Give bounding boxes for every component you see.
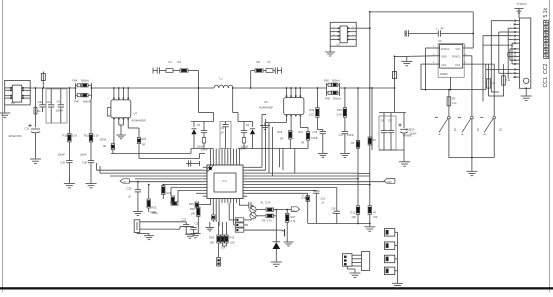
svg-text:4.7k: 4.7k [291,220,296,223]
svg-text:5.1K: 5.1K [309,114,314,117]
svg-text:2: 2 [227,205,228,207]
svg-text:2: 2 [244,181,245,183]
svg-text:R39: R39 [230,236,235,240]
svg-text:10K: 10K [230,241,235,245]
svg-text:VBUS: VBUS [405,130,412,132]
svg-text:R12: R12 [351,211,356,215]
svg-text:FUNC2: FUNC2 [441,48,450,51]
svg-text:R15: R15 [84,134,89,138]
svg-text:C22: C22 [195,222,200,226]
svg-text:CC1: CC1 [442,64,448,67]
svg-text:5.1k: 5.1k [543,8,549,18]
svg-text:0R: 0R [280,138,283,141]
svg-text:10K: 10K [191,212,196,216]
svg-text:C9: C9 [388,119,392,123]
svg-text:560uH: 560uH [332,79,340,83]
svg-text:7: 7 [353,30,354,32]
svg-text:R37: R37 [291,215,296,219]
svg-text:R20A: R20A [100,139,107,142]
svg-text:70K: 70K [373,215,378,219]
svg-text:8: 8 [353,27,354,29]
svg-text:0R: 0R [103,145,106,148]
svg-text:R27: R27 [299,131,304,134]
svg-text:C30: C30 [82,161,87,165]
svg-text:R47: R47 [75,100,80,104]
svg-text:U3: U3 [438,39,442,43]
svg-text:U6: U6 [11,101,15,105]
svg-text:4R: 4R [441,29,444,31]
svg-text:RL 5.7k: RL 5.7k [261,201,271,205]
svg-text:0R: 0R [301,142,304,145]
svg-text:2: 2 [244,193,245,195]
svg-text:FUNC1: FUNC1 [452,56,461,59]
svg-text:100K: 100K [150,210,156,214]
svg-text:6: 6 [510,77,511,79]
svg-text:C29: C29 [60,161,65,165]
svg-text:S2: S2 [453,128,457,132]
svg-text:0R: 0R [142,144,145,147]
svg-text:100nF: 100nF [58,153,66,157]
svg-text:C1: C1 [221,126,225,130]
svg-text:2: 2 [510,24,511,26]
svg-text:R30: R30 [190,207,195,211]
svg-text:R38: R38 [209,236,214,240]
svg-text:100nF: 100nF [56,109,64,113]
svg-text:560uH: 560uH [333,97,341,101]
svg-text:NC: NC [304,198,308,200]
svg-text:C3: C3 [168,60,172,64]
svg-text:U2: U2 [264,100,268,104]
svg-text:1: 1 [333,27,334,29]
svg-text:5.1K: 5.1K [72,134,78,138]
svg-text:S1: S1 [476,128,480,132]
svg-text:C6: C6 [57,100,61,104]
svg-text:5: 5 [353,38,354,40]
svg-text:R6 4.7k: R6 4.7k [262,219,272,223]
svg-text:220uF/35V: 220uF/35V [9,134,22,138]
svg-text:CC2: CC2 [455,64,461,67]
svg-text:2: 2 [333,30,334,32]
svg-text:R33: R33 [337,108,342,112]
svg-text:2: 2 [244,187,245,189]
svg-text:R4: R4 [178,60,182,64]
svg-text:AO4H4435P: AO4H4435P [132,120,146,123]
svg-text:5.1K: 5.1K [337,114,342,117]
svg-text:U7: U7 [134,112,138,116]
svg-text:C16: C16 [313,130,318,134]
svg-text:VIN: VIN [387,180,391,184]
svg-text:2: 2 [244,170,245,172]
svg-text:C8: C8 [381,119,385,123]
svg-text:5.1k: 5.1k [452,102,457,105]
svg-text:R26: R26 [278,131,283,134]
svg-text:C17: C17 [339,133,344,137]
svg-text:20K: 20K [352,215,357,219]
svg-text:5.1K: 5.1K [93,134,99,138]
svg-text:2: 2 [221,205,222,207]
svg-text:AO4H4435P: AO4H4435P [259,107,273,110]
svg-text:100nF: 100nF [311,137,319,140]
svg-text:100nF: 100nF [347,134,355,137]
svg-text:R7: R7 [373,211,377,215]
svg-text:D1: D1 [197,123,201,127]
svg-text:C5: C5 [267,60,271,64]
svg-text:3: 3 [510,64,511,66]
svg-text:FSB02: FSB02 [440,73,448,76]
svg-text:2: 2 [244,175,245,177]
svg-text:R33: R33 [152,206,157,210]
svg-text:R42: R42 [324,79,329,83]
svg-text:1uF: 1uF [38,100,43,104]
svg-text:560uH: 560uH [81,79,89,83]
svg-text:C11: C11 [25,127,30,131]
svg-text:100nF: 100nF [240,147,248,151]
svg-text:VIN: VIN [456,48,460,51]
svg-text:L1: L1 [220,77,224,81]
svg-text:uF: uF [128,195,131,199]
svg-text:S3: S3 [498,128,502,132]
svg-text:100nF: 100nF [201,148,209,152]
svg-text:GND: GND [441,56,447,59]
svg-text:Fxxx: Fxxx [222,180,228,183]
svg-text:R25: R25 [142,138,147,141]
svg-text:C18: C18 [331,208,336,211]
svg-text:6: 6 [353,34,354,36]
svg-text:2: 2 [244,198,245,200]
svg-text:10K: 10K [210,241,215,245]
svg-text:560uH: 560uH [83,100,91,104]
svg-text:R29: R29 [189,202,194,206]
svg-text:C21: C21 [182,218,187,222]
svg-text:CC1: CC1 [543,77,549,87]
svg-text:100nF: 100nF [80,153,88,157]
svg-text:PWREN: PWREN [403,136,412,138]
svg-text:uF: uF [221,131,224,135]
svg-text:R5: R5 [257,60,261,64]
svg-text:R34: R34 [310,108,315,112]
svg-text:R16: R16 [63,134,68,138]
svg-text:3: 3 [333,34,334,36]
svg-text:1uF: 1uF [46,100,51,104]
svg-text:C20: C20 [127,187,132,191]
svg-text:CC2: CC2 [543,64,549,74]
svg-text:4: 4 [333,38,334,40]
svg-text:TYP01C: TYP01C [517,2,527,6]
svg-text:C19: C19 [321,198,326,201]
svg-text:D2: D2 [246,123,250,127]
svg-text:R45: R45 [325,97,330,101]
svg-text:R44: R44 [73,79,78,83]
